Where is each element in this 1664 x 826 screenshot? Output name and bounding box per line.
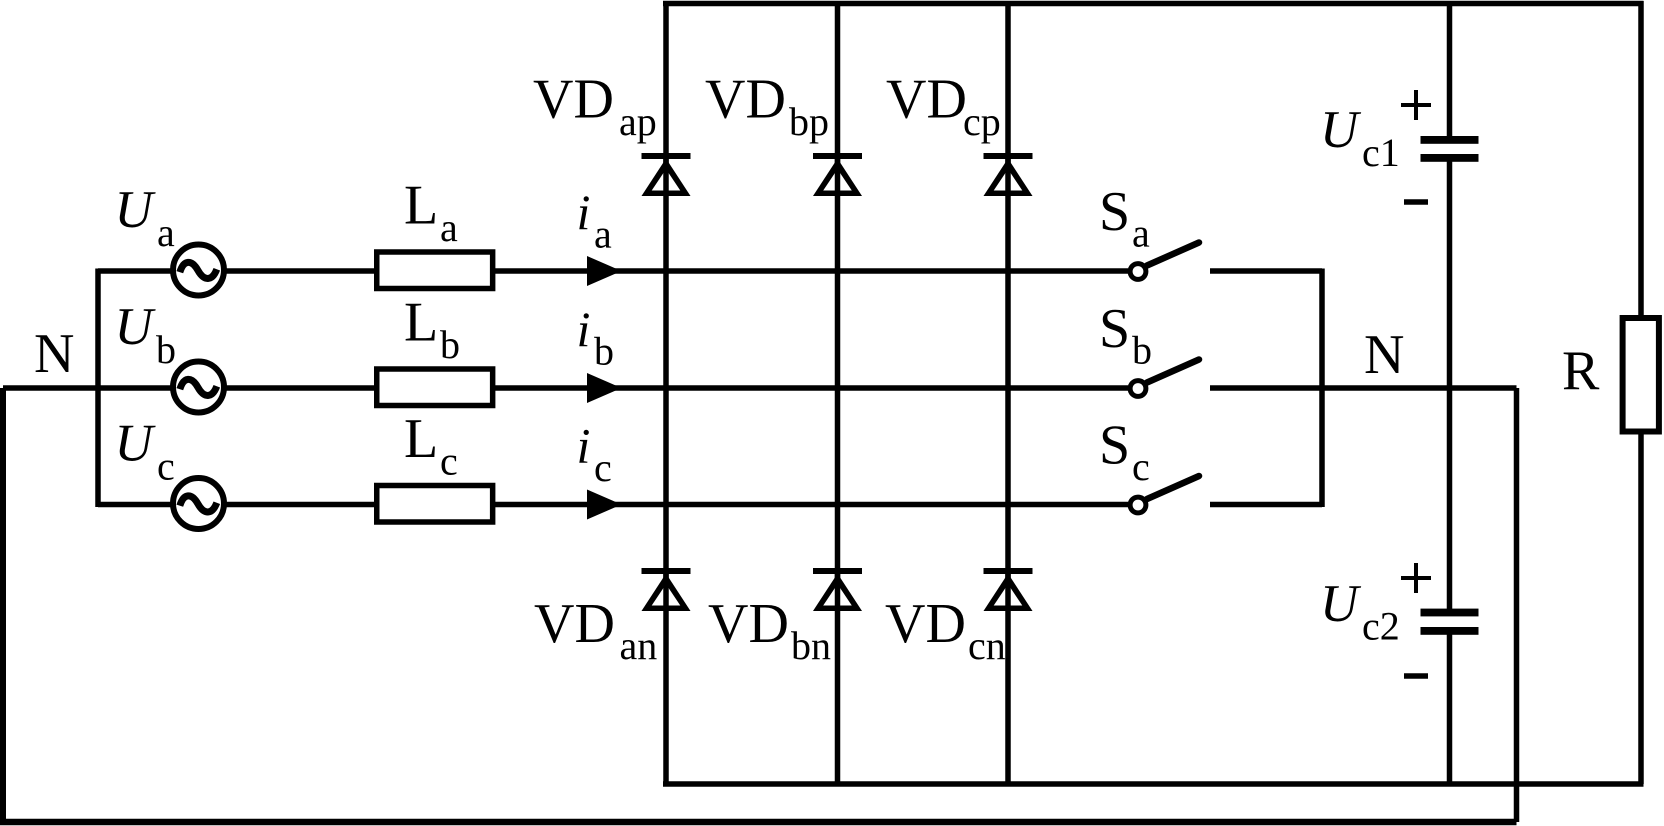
wire capacitor branch lower [1447,631,1453,784]
capacitor C2 plates [1421,609,1479,635]
svg-text:L: L [404,292,438,354]
inductor Lb [377,369,493,406]
wire switch Sc output [1210,502,1322,508]
wire diode leg b vertical [835,1,841,784]
svg-text:cn: cn [968,623,1006,668]
current arrow ic [587,490,622,520]
capacitor C2 plus sign [1401,563,1431,593]
capacitor C2 minus sign [1404,673,1428,679]
label VDcn [885,593,1006,668]
svg-text:R: R [1562,340,1600,402]
svg-text:b: b [594,329,614,374]
svg-text:ap: ap [619,99,657,144]
label VDcp [886,69,1001,145]
label ib [577,301,615,374]
AC source Ub [173,362,224,413]
svg-text:i: i [577,301,591,357]
svg-text:c: c [157,444,175,489]
label Uc [115,415,175,489]
svg-text:VD: VD [534,593,615,655]
label Uc2 [1320,575,1400,649]
svg-text:b: b [440,322,460,367]
svg-text:a: a [1132,211,1150,256]
svg-text:U: U [115,181,157,239]
svg-text:N: N [1364,324,1404,386]
svg-text:VD: VD [885,593,966,655]
label Ua [115,181,176,255]
wire switch Sa output [1210,268,1322,274]
wire top DC+ rail [663,1,1644,7]
wire R branch upper [1638,1,1644,316]
current arrow ib [587,373,622,403]
switch Sa [1130,243,1199,280]
svg-text:VD: VD [708,593,789,655]
svg-text:c2: c2 [1362,604,1400,649]
svg-text:c: c [1132,444,1150,489]
wire R branch lower [1638,434,1644,785]
wire capacitor branch upper [1447,1,1453,140]
svg-text:bn: bn [791,623,831,668]
diode VDcp [984,153,1033,196]
svg-text:N: N [34,323,74,385]
AC source Uc [173,478,224,529]
wire switch bus vertical [1319,269,1325,508]
inductor Lc [377,486,493,523]
diode VDan [642,568,691,611]
label Lc [404,408,458,484]
svg-text:L: L [404,408,438,470]
wire source common bus vertical [95,269,101,508]
svg-text:c1: c1 [1362,130,1400,175]
label VDap [533,69,657,145]
svg-text:i: i [577,184,591,240]
svg-text:U: U [115,298,157,356]
capacitor C1 plates [1421,136,1479,162]
label Sa [1099,181,1150,256]
label Sc [1099,415,1150,490]
wire switch Sb output / N mid rail [1210,385,1517,391]
label ia [577,184,613,257]
svg-text:an: an [620,623,658,668]
svg-text:i: i [577,418,591,474]
label Lb [404,292,460,368]
wire phase a horizontal [98,268,1128,274]
label ic [577,418,612,491]
wire N left vertical [0,388,6,822]
svg-text:L: L [404,175,438,237]
label Uc1 [1320,101,1400,175]
label La [404,175,458,251]
switch Sc [1130,476,1199,513]
svg-text:S: S [1099,298,1130,360]
label VDbn [708,593,831,668]
svg-text:a: a [594,212,612,257]
label VDbp [705,69,829,145]
capacitor C1 plus sign [1401,90,1431,120]
svg-text:cp: cp [963,99,1001,144]
wire diode leg c vertical [1005,1,1011,784]
diode VDap [642,153,691,196]
wire N bottom return rail [0,819,1517,826]
label VDan [534,593,657,668]
svg-text:b: b [1132,328,1152,373]
svg-text:U: U [115,415,157,473]
svg-text:c: c [440,439,458,484]
svg-text:a: a [440,205,458,250]
diode VDbn [813,568,862,611]
wire phase b horizontal with N left link [3,385,1128,391]
diode VDcn [984,568,1033,611]
capacitor C1 minus sign [1404,199,1428,205]
svg-text:S: S [1099,181,1130,243]
wire bottom DC- rail [663,781,1644,787]
inductor La [377,252,493,289]
svg-text:VD: VD [533,69,614,131]
resistor R [1623,318,1659,432]
wire diode leg a vertical [663,1,669,784]
svg-text:bp: bp [789,99,829,144]
wire phase c horizontal [98,502,1128,508]
switch Sb [1130,360,1199,397]
svg-text:VD: VD [886,69,967,131]
svg-text:U: U [1320,575,1362,633]
svg-text:b: b [156,327,176,372]
wire N right vertical [1514,388,1520,822]
wire capacitor branch middle [1447,158,1453,612]
svg-text:U: U [1320,101,1362,159]
svg-text:a: a [157,210,175,255]
diode VDbp [813,153,862,196]
AC source Ua [173,245,224,296]
svg-text:c: c [594,445,612,490]
label Ub [115,298,177,372]
current arrow ia [587,256,622,286]
svg-text:VD: VD [705,69,786,131]
label Sb [1099,298,1152,373]
svg-text:S: S [1099,415,1130,477]
